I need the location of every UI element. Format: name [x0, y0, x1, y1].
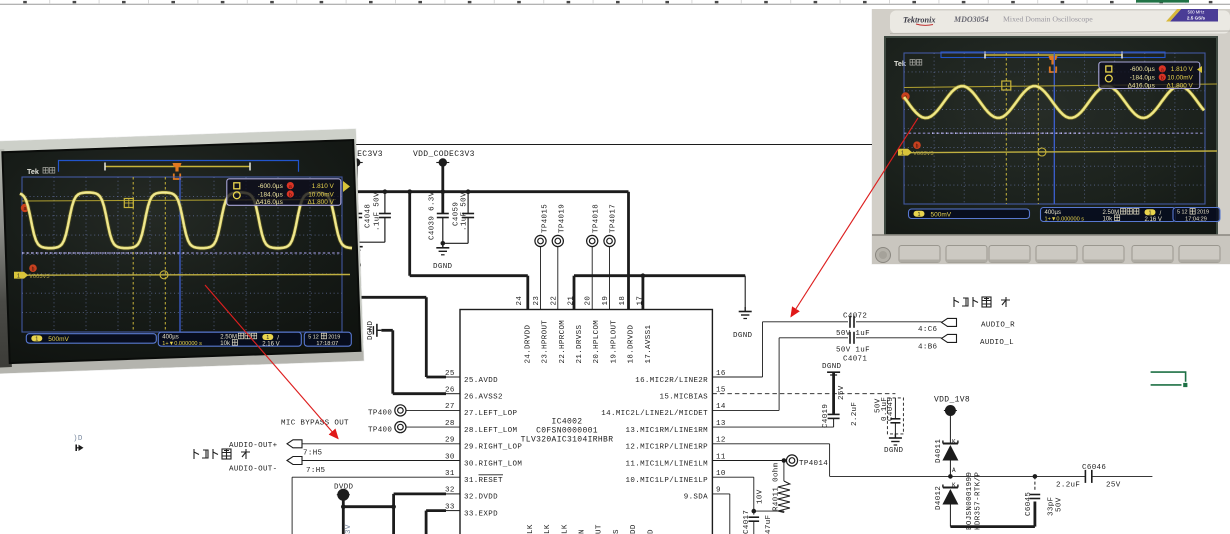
- svg-text:5 12: 5 12: [1177, 210, 1188, 216]
- ground GND (left caps): [355, 242, 357, 247]
- svg-text:1+▼0.000000 s: 1+▼0.000000 s: [1045, 217, 1085, 223]
- node tag fragment: [79, 445, 84, 451]
- svg-text:Δ1.800 V: Δ1.800 V: [1166, 82, 1193, 89]
- capacitor C4017 47uF 10V: [749, 516, 760, 518]
- oscilloscope photo left: [0, 129, 364, 374]
- wire bottom bus: [950, 525, 1035, 528]
- svg-text:Tektronix: Tektronix: [903, 16, 935, 25]
- wire RESET pin31: [292, 476, 460, 478]
- wire top horizontal net: [352, 144, 874, 146]
- svg-text:-184.0µs: -184.0µs: [1130, 75, 1155, 82]
- svg-text:2.5 GS/s: 2.5 GS/s: [1187, 16, 1206, 21]
- ground DGND below C4049: [894, 434, 896, 439]
- wire AVSS2 to DGND: [381, 329, 392, 332]
- svg-text:17:04:29: 17:04:29: [1185, 216, 1207, 222]
- wire AVDD feed: [352, 296, 426, 299]
- wire DRVSS net to DGND: [574, 274, 745, 277]
- capacitor C4048: [350, 213, 362, 215]
- wire MIC2L to C4071: [712, 409, 779, 411]
- capacitor C4039: [437, 213, 449, 215]
- wire pin10 to C4017: [712, 476, 753, 478]
- connector 4:C6 AUDIO_R: [942, 318, 957, 326]
- wire pin9 SDA: [712, 493, 729, 495]
- wire DVDD net: [342, 495, 345, 534]
- red annotation arrow 1: [205, 285, 338, 439]
- svg-text:1: 1: [917, 212, 920, 218]
- svg-text:1.810 V: 1.810 V: [1171, 66, 1194, 73]
- svg-text:400µs: 400µs: [1045, 210, 1061, 216]
- wire MIC1LM pin11 with TP4014: [712, 460, 786, 462]
- capacitor C4048 partner: [384, 192, 386, 213]
- svg-text:Δ416.0µs: Δ416.0µs: [1128, 82, 1155, 89]
- ground DGND (C4039): [442, 243, 444, 248]
- wire VDD_1V8 to D4011: [949, 411, 951, 444]
- svg-text:b: b: [916, 143, 919, 149]
- svg-text:500 MHz: 500 MHz: [1188, 10, 1205, 15]
- wire VDD branch left: [355, 163, 358, 214]
- svg-text:1: 1: [901, 151, 904, 157]
- wire VDD_CODEC3V3 bus: [441, 163, 444, 214]
- capacitor C4059: [467, 192, 469, 213]
- wire branch to pin 24: [408, 192, 411, 276]
- connector 4:B6 AUDIO_L: [942, 334, 957, 342]
- node label audio-out chinese: [194, 449, 250, 459]
- op-amp IC4002 TLV320AIC3104IRHBR codec: [460, 310, 712, 534]
- svg-text:1: 1: [1148, 211, 1151, 217]
- wire output net pin12: [712, 443, 829, 445]
- svg-text:-600.0µs: -600.0µs: [1130, 66, 1155, 73]
- wire MICBIAS dashed: [712, 393, 895, 395]
- svg-text:Mixed Domain Oscilloscope: Mixed Domain Oscilloscope: [1003, 15, 1093, 24]
- svg-text:500mV: 500mV: [931, 212, 952, 219]
- wire EXPD pin33: [425, 511, 428, 534]
- svg-text:V003V3: V003V3: [913, 151, 934, 157]
- svg-text:MDO3054: MDO3054: [953, 15, 989, 24]
- node label audio_r chinese: [954, 297, 1010, 307]
- capacitor C6045 33pF 50V: [1034, 476, 1036, 491]
- svg-text:10.00mV: 10.00mV: [1167, 75, 1193, 82]
- svg-text:2019: 2019: [1197, 210, 1209, 216]
- wire bus drop to pin 18: [627, 192, 630, 310]
- node green cell selection: [1151, 372, 1186, 385]
- wire MIC2R/LINE2R to C4072: [712, 376, 762, 378]
- oscilloscope photo right: [872, 8, 1230, 264]
- test point TP4014: [786, 455, 797, 466]
- wire MIC1RM to C4019: [712, 426, 833, 428]
- svg-text:10k: 10k: [1103, 217, 1114, 223]
- red annotation arrow 2: [791, 118, 918, 317]
- svg-text:2.16 V: 2.16 V: [1145, 217, 1162, 223]
- svg-text:/: /: [1160, 210, 1162, 217]
- capacitor C4071 50V 1uF: [849, 332, 851, 344]
- capacitor C4019 2.2uF 25V: [832, 372, 835, 414]
- capacitor C4049 (dashed DNP box): [887, 398, 903, 434]
- svg-text:b: b: [1161, 76, 1164, 82]
- ground DGND (right of IC): [744, 307, 746, 312]
